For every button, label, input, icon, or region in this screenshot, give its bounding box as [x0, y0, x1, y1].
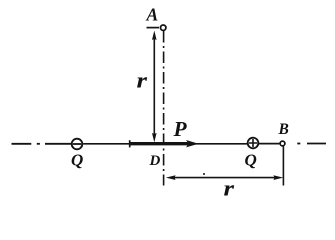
dimension r up arrowhead: [152, 31, 157, 41]
svg-text:D: D: [149, 153, 161, 169]
svg-text:Q: Q: [71, 151, 83, 170]
extension line below B: [282, 147, 284, 186]
svg-text:Q: Q: [245, 151, 257, 170]
point B open circle: [280, 141, 285, 146]
svg-text:r: r: [137, 68, 148, 93]
point A open circle: [161, 25, 166, 30]
vector P shaft: [130, 142, 189, 145]
wire: solid axis from Q+ to B: [259, 143, 280, 145]
charge Q+ (positive charge circle): [248, 138, 259, 149]
charge Q- (negative charge circle): [72, 139, 83, 150]
wire: vertical dash-dot line from A through D: [163, 31, 165, 186]
svg-text:P: P: [173, 117, 188, 141]
wire: solid axis from Q- to Q+: [83, 143, 247, 145]
speck dot on dimension line: [203, 173, 205, 175]
tick at A (horizontal bar): [147, 27, 160, 29]
dimension r horizontal shaft: [172, 177, 277, 179]
svg-text:r: r: [224, 176, 235, 200]
dimension r left arrowhead: [166, 175, 176, 180]
dimension r right arrowhead: [273, 175, 283, 180]
svg-text:A: A: [146, 4, 159, 24]
vector P tail tick: [129, 140, 131, 147]
wire: left dash-dot axis segment: [12, 143, 72, 145]
dimension r vertical shaft: [153, 37, 155, 135]
dimension r down arrowhead: [152, 133, 157, 142]
svg-text:B: B: [278, 121, 289, 138]
vector P arrowhead: [186, 140, 199, 147]
wire: right dash-dot axis segment: [297, 143, 326, 145]
